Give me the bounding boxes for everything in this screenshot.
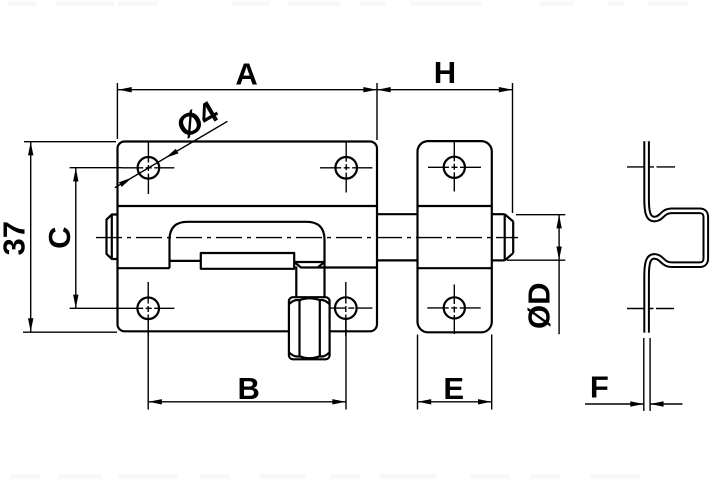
svg-text:E: E [443,371,464,406]
svg-text:F: F [590,370,609,405]
svg-text:B: B [238,371,260,406]
svg-text:ØD: ØD [521,283,556,330]
svg-text:H: H [434,55,456,90]
svg-text:C: C [42,227,77,249]
svg-text:A: A [235,57,257,92]
svg-text:37: 37 [0,221,32,255]
